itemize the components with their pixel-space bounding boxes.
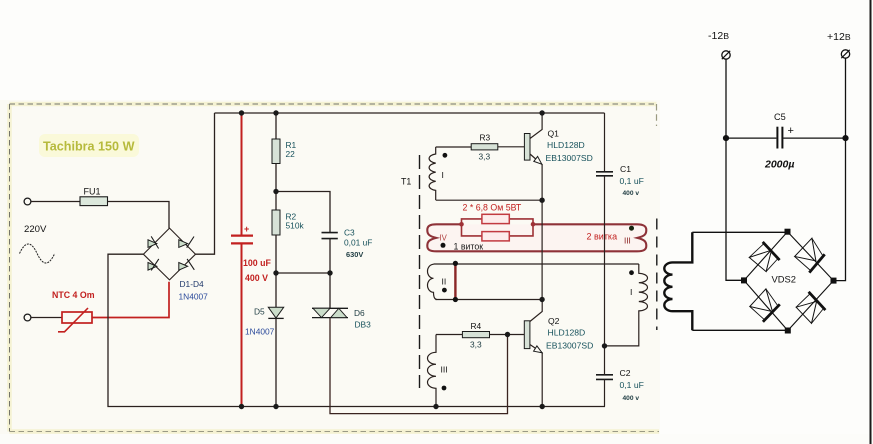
title glow	[39, 134, 139, 157]
resistor R4	[462, 332, 489, 338]
svg-text:1N4007: 1N4007	[245, 327, 275, 337]
strap node top	[453, 261, 458, 266]
primary phase dot	[629, 270, 634, 275]
T1 winding III	[428, 335, 437, 407]
diode D1 (top-left arm)	[148, 236, 159, 248]
bridge rectifier D1-D4 diamond	[143, 228, 195, 280]
dashed enclosure glow	[10, 104, 660, 432]
svg-text:2000µ: 2000µ	[764, 159, 794, 171]
terminal input bottom	[24, 314, 31, 321]
svg-text:C3: C3	[344, 228, 355, 238]
wire bridge right vertex up to top rail	[196, 113, 215, 254]
wire terminal to fuse	[31, 201, 80, 203]
winding II phase dot	[442, 288, 447, 293]
svg-text:-12В: -12В	[708, 30, 729, 42]
svg-text:+: +	[244, 224, 249, 234]
transistor Q1 HLD128D EB13007SD	[524, 113, 542, 200]
C5 node left	[723, 135, 729, 141]
output transformer core dashed line	[656, 219, 658, 331]
junction dot top rail / Q1 collector	[539, 110, 544, 115]
dashed enclosure border	[10, 104, 657, 432]
svg-text:510k: 510k	[286, 221, 305, 231]
lamp loop (red stadium) interior	[427, 224, 646, 251]
svg-text:2 * 6,8 Ом 5ВТ: 2 * 6,8 Ом 5ВТ	[463, 203, 522, 213]
branch node right	[531, 222, 536, 227]
right scan edge line	[870, 0, 872, 444]
midpoint vertical wire Q1 emitter to Q2 collector	[541, 200, 543, 299]
svg-text:100 uF: 100 uF	[243, 258, 271, 268]
VDS2 bridge diamond	[744, 232, 834, 331]
sine wave symbol	[20, 244, 55, 263]
svg-text:D6: D6	[354, 308, 365, 318]
wire D6 to lower rail (to Q2 base feed)	[330, 318, 508, 414]
winding III phase dot	[442, 386, 447, 391]
top rail	[215, 112, 605, 114]
svg-text:FU1: FU1	[84, 187, 101, 197]
transistor Q2 HLD128D EB13007SD	[524, 300, 542, 407]
branch node left	[459, 222, 464, 227]
junction dot C3 bottom	[327, 270, 332, 275]
resistor 6,8 Om (top)	[482, 214, 509, 223]
wire -12V down to VDS2 left	[726, 59, 744, 280]
junction dot R2 bottom	[273, 270, 278, 275]
wire R3 to Q1 base	[498, 146, 525, 148]
wire secondary bottom to VDS2 bottom	[692, 329, 788, 331]
svg-text:0,1 uF: 0,1 uF	[620, 176, 644, 186]
junction dot winding II / midpoint	[539, 297, 544, 302]
svg-text:EB13007SD: EB13007SD	[546, 341, 593, 351]
resistor R1	[275, 113, 277, 139]
junction dot bottom rail / cap	[239, 404, 244, 409]
lamp loop outline with winding IV left cap and output winding right cap	[427, 224, 646, 251]
svg-text:C1: C1	[620, 164, 631, 174]
svg-text:400 v: 400 v	[623, 190, 640, 197]
junction dot R4 / Q2 base	[505, 332, 510, 337]
svg-text:C2: C2	[620, 368, 631, 378]
red shorting strap	[454, 263, 456, 299]
svg-text:2 витка: 2 витка	[587, 232, 618, 242]
resistor 6,8 Om (bottom)	[482, 232, 509, 241]
diode D2 (top-right arm)	[179, 237, 194, 248]
svg-text:Tachibra 150 W: Tachibra 150 W	[43, 140, 135, 154]
output winding phase dot (red)	[629, 226, 634, 231]
svg-text:1N4007: 1N4007	[179, 292, 209, 302]
wire R2-C3 bottom node	[276, 272, 330, 274]
junction dot bottom rail / winding III	[433, 404, 438, 409]
diode D5	[275, 273, 277, 307]
svg-text:I: I	[442, 170, 444, 180]
VDS2 diode top-right	[795, 238, 825, 272]
capacitor C1	[604, 113, 606, 172]
wire winding III top to R4	[436, 334, 462, 336]
VDS2 vertex nodes	[785, 229, 791, 235]
parallel resistor branch wires	[462, 219, 534, 236]
node R1/R2 to C3	[276, 192, 330, 233]
svg-text:HLD128D: HLD128D	[547, 140, 585, 150]
junction dot bottom rail / D5	[273, 404, 278, 409]
C5 node right	[842, 135, 848, 141]
svg-text:1 виток: 1 виток	[454, 242, 484, 252]
VDS2 diode bottom-right	[796, 292, 825, 324]
wire fuse to bridge top	[108, 202, 170, 229]
resistor R3	[471, 144, 498, 150]
junction dot top rail / cap	[239, 110, 244, 115]
svg-text:Q2: Q2	[548, 316, 560, 326]
svg-text:T1: T1	[401, 177, 411, 187]
svg-text:630V: 630V	[346, 250, 363, 259]
VDS2 diode bottom-left	[750, 289, 780, 322]
VDS2 diode top-left	[749, 242, 779, 272]
svg-text:C5: C5	[774, 112, 786, 122]
winding II top long wire to output transformer	[434, 263, 639, 265]
winding IV phase dot	[441, 243, 446, 248]
junction dot top rail / R1	[273, 110, 278, 115]
output transformer primary winding	[605, 264, 648, 346]
svg-text:400 v: 400 v	[623, 395, 640, 402]
wire R4 to Q2 base	[490, 334, 525, 336]
svg-text:0,01 uF: 0,01 uF	[344, 238, 372, 248]
svg-text:+12В: +12В	[827, 31, 851, 43]
fuse FU1	[80, 197, 108, 206]
T1 winding I	[429, 147, 436, 200]
resistor R2	[272, 210, 280, 235]
wire terminal to NTC	[31, 317, 62, 319]
electrolytic capacitor 100uF 400V (red)	[231, 113, 271, 407]
svg-text:400 V: 400 V	[245, 273, 268, 283]
junction dot R1-R2 node	[273, 189, 278, 194]
svg-text:Q1: Q1	[548, 129, 560, 139]
junction dot C1-C2 / primary	[602, 343, 607, 348]
diac D6 DB3	[329, 273, 331, 308]
svg-text:III: III	[441, 365, 448, 375]
svg-text:3,3: 3,3	[479, 152, 491, 162]
svg-text:HLD128D: HLD128D	[548, 328, 586, 338]
svg-text:D1-D4: D1-D4	[180, 279, 205, 289]
bottom rail	[242, 406, 606, 408]
svg-text:NTC 4 Om: NTC 4 Om	[52, 290, 95, 300]
red wire NTC to bridge bottom	[92, 282, 169, 318]
svg-text:22: 22	[286, 149, 296, 159]
capacitor C5	[726, 137, 846, 139]
svg-text:0,1 uF: 0,1 uF	[620, 380, 644, 390]
T1 winding II	[428, 264, 438, 299]
wire winding I bottom to emitter node	[436, 199, 542, 201]
output transformer secondary winding (thick)	[664, 232, 692, 330]
svg-text:EB13007SD: EB13007SD	[546, 153, 593, 163]
svg-text:DB3: DB3	[355, 320, 372, 330]
svg-text:3,3: 3,3	[470, 340, 482, 350]
svg-text:R4: R4	[471, 321, 482, 331]
svg-text:I: I	[630, 287, 632, 297]
T1 core dashed line	[419, 155, 421, 388]
svg-text:R3: R3	[480, 133, 491, 143]
wire +12V down to VDS2 right	[834, 58, 846, 280]
svg-text:IV: IV	[440, 234, 448, 243]
winding I phase dot	[443, 153, 448, 158]
winding II bottom wire to midpoint	[436, 299, 543, 301]
wire winding I top to R3	[436, 146, 472, 148]
svg-text:220V: 220V	[24, 224, 47, 235]
strap node bottom	[453, 297, 458, 302]
wire bridge left vertex to bottom rail	[108, 254, 242, 406]
svg-text:+: +	[788, 125, 794, 137]
diode D3 (bottom-left arm)	[148, 259, 159, 271]
svg-text:II: II	[442, 277, 447, 287]
capacitor C3	[322, 232, 338, 234]
svg-text:VDS2: VDS2	[772, 274, 797, 285]
diode D4 (bottom-right arm)	[179, 259, 195, 270]
capacitor C2	[596, 374, 613, 376]
junction dot winding I / Q1 emitter	[539, 198, 544, 203]
svg-text:III: III	[624, 237, 631, 246]
terminal input top	[24, 198, 31, 205]
junction dot bottom rail / Q2 emitter	[540, 404, 545, 409]
svg-text:D5: D5	[254, 307, 265, 317]
wire secondary top to VDS2 top	[692, 231, 787, 233]
